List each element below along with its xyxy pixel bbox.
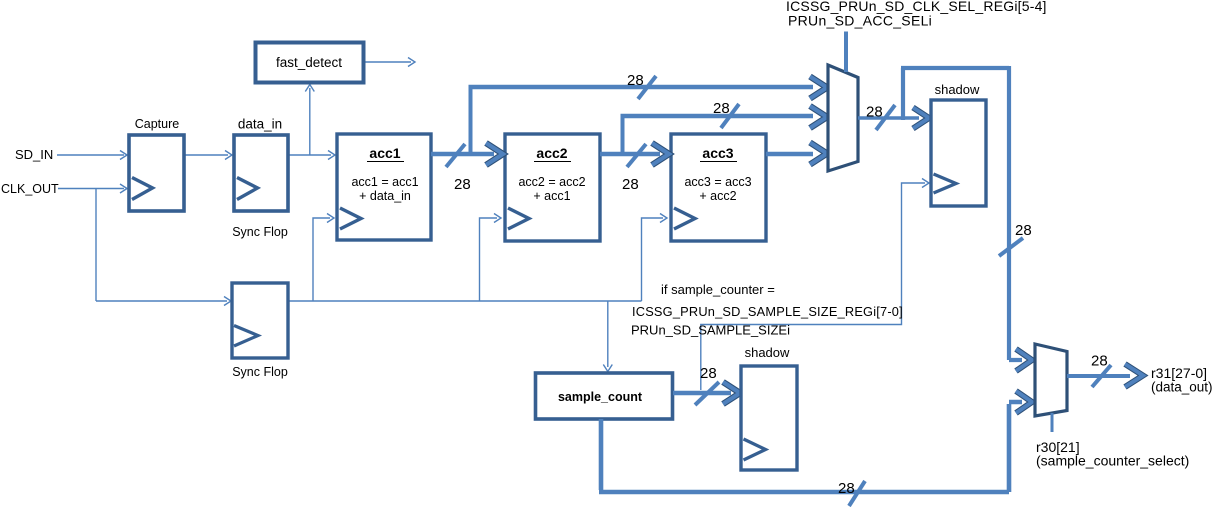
wire branch up to fast_detect (305, 85, 314, 156)
svg-text:acc2 = acc2: acc2 = acc2 (518, 175, 585, 189)
svg-text:SD_IN: SD_IN (15, 147, 53, 162)
node r30 label (1036, 439, 1189, 469)
wire sample_count to shadow bottom (673, 382, 740, 404)
wire CLK_OUT input line (58, 184, 127, 193)
node shadow bottom label (745, 345, 790, 360)
register acc2 (505, 134, 600, 241)
node if sample_counter text (661, 282, 775, 297)
wire clock rail after bottom sync flop (288, 300, 642, 302)
wire acc3 to mux input3 (766, 143, 827, 165)
mux U1 accumulator select (828, 65, 858, 171)
wire clock branch down from CLK_OUT (95, 189, 97, 302)
wire sample_count to mux2 bottom path (599, 391, 1032, 492)
svg-text:acc3 = acc3: acc3 = acc3 (684, 175, 751, 189)
node Capture label (135, 117, 180, 131)
wire middle row to mux input2 (621, 106, 828, 128)
svg-text:28: 28 (866, 104, 883, 121)
svg-text:+ data_in: + data_in (359, 189, 411, 203)
svg-text:+ acc2: + acc2 (699, 189, 736, 203)
wire acc2 to acc3 bus (600, 143, 669, 165)
node 28 label middle row (713, 100, 730, 117)
svg-text:sample_count: sample_count (558, 390, 643, 404)
svg-text:shadow: shadow (745, 345, 790, 360)
register Sync Flop data_in (234, 135, 288, 211)
node 28 label bypass (1015, 222, 1032, 239)
svg-text:(data_out): (data_out) (1151, 380, 1213, 395)
svg-text:data_in: data_in (238, 117, 282, 132)
svg-text:ICSSG_PRUn_SD_SAMPLE_SIZE_REGi: ICSSG_PRUn_SD_SAMPLE_SIZE_REGi[7-0] (632, 304, 903, 319)
register acc3 (671, 134, 766, 241)
wire slash acc2-acc3 (627, 144, 646, 167)
svg-text:acc3: acc3 (702, 145, 733, 161)
register sample_count (536, 373, 673, 419)
wire slash bypass vertical (999, 238, 1023, 256)
wire slash bottom bus (849, 481, 865, 506)
wire capture to data_in (184, 151, 232, 160)
svg-text:28: 28 (838, 480, 855, 497)
register Sync Flop bottom (232, 283, 288, 358)
wire slash middle row (721, 104, 739, 128)
svg-text:Sync Flop: Sync Flop (232, 225, 288, 239)
node data_in label (238, 117, 282, 132)
node r31 label (1151, 365, 1213, 395)
wire clock riser to acc2 (480, 214, 502, 302)
wire mux1 output to shadow (858, 108, 929, 129)
svg-text:shadow: shadow (935, 82, 980, 97)
node select label line1 (786, 0, 1047, 14)
node select label line2 (788, 13, 932, 29)
wire fast_detect output (364, 58, 415, 67)
node 28 label acc2-acc3 (622, 176, 639, 193)
svg-text:(sample_counter_select): (sample_counter_select) (1036, 453, 1189, 469)
svg-text:PRUn_SD_SAMPLE_SIZEi: PRUn_SD_SAMPLE_SIZEi (631, 323, 790, 338)
wire clock riser to acc1 (313, 214, 334, 302)
wire branch up from acc1 output (469, 85, 473, 156)
svg-text:28: 28 (1015, 222, 1032, 239)
svg-text:CLK_OUT: CLK_OUT (1, 182, 59, 196)
svg-text:28: 28 (454, 176, 471, 193)
wire slash mux1 output (876, 105, 895, 130)
node 28 label mux2 output (1091, 353, 1108, 370)
register shadow bottom (741, 366, 797, 470)
register Capture (129, 135, 184, 211)
svg-text:28: 28 (700, 365, 717, 382)
svg-text:28: 28 (622, 176, 639, 193)
node 28 label top row (627, 72, 644, 89)
node 28 label mux1 output (866, 104, 883, 121)
svg-text:Sync Flop: Sync Flop (232, 365, 288, 379)
wire clock rail into bottom sync flop (96, 297, 231, 306)
wire mux1 select stub (844, 32, 848, 73)
wire slash acc1-acc2 (446, 144, 465, 167)
svg-text:Capture: Capture (135, 117, 180, 131)
wire mux2 output (1067, 364, 1143, 387)
wire clock drop to sample_count (603, 301, 612, 372)
wire slash mux2 output (1092, 365, 1111, 387)
node Sync Flop label bottom (232, 365, 288, 379)
node 28 label sample_count output (700, 365, 717, 382)
wire branch up from acc2 output (621, 114, 625, 156)
node 28 label bottom bus (838, 480, 855, 497)
mux U2 output select (1035, 344, 1067, 416)
svg-text:acc1 = acc1: acc1 = acc1 (351, 175, 418, 189)
svg-text:acc2: acc2 (536, 145, 567, 161)
wire clock riser to acc3 (642, 214, 668, 302)
wire mux2 select stub (1051, 413, 1054, 432)
node CLK_OUT label (1, 182, 59, 196)
register shadow top (931, 100, 986, 206)
node 28 label acc1-acc2 (454, 176, 471, 193)
node Sync Flop label top (232, 225, 288, 239)
node sample size reg text (632, 304, 903, 319)
register acc1 (337, 134, 431, 240)
svg-text:PRUn_SD_ACC_SELi: PRUn_SD_ACC_SELi (788, 13, 932, 29)
wire top row to mux input1 (469, 77, 828, 99)
wire slash sample_count output (695, 382, 719, 405)
svg-text:28: 28 (1091, 353, 1108, 370)
wire shadow bypass over register (901, 66, 1032, 371)
node sample size text2 (631, 323, 790, 338)
svg-text:acc1: acc1 (369, 145, 400, 161)
svg-text:if sample_counter =: if sample_counter = (661, 282, 775, 297)
svg-text:28: 28 (627, 72, 644, 89)
wire shadow register clock net (701, 179, 929, 391)
node shadow top label (935, 82, 980, 97)
block fast_detect (256, 43, 364, 83)
wire SD_IN input line (57, 151, 127, 160)
node SD_IN label (15, 147, 53, 162)
wire data_in to acc1 (288, 151, 335, 160)
svg-text:+ acc1: + acc1 (533, 189, 570, 203)
svg-text:fast_detect: fast_detect (276, 55, 342, 70)
svg-text:28: 28 (713, 100, 730, 117)
wire slash top row (638, 76, 656, 99)
wire acc1 to acc2 bus (431, 143, 503, 165)
